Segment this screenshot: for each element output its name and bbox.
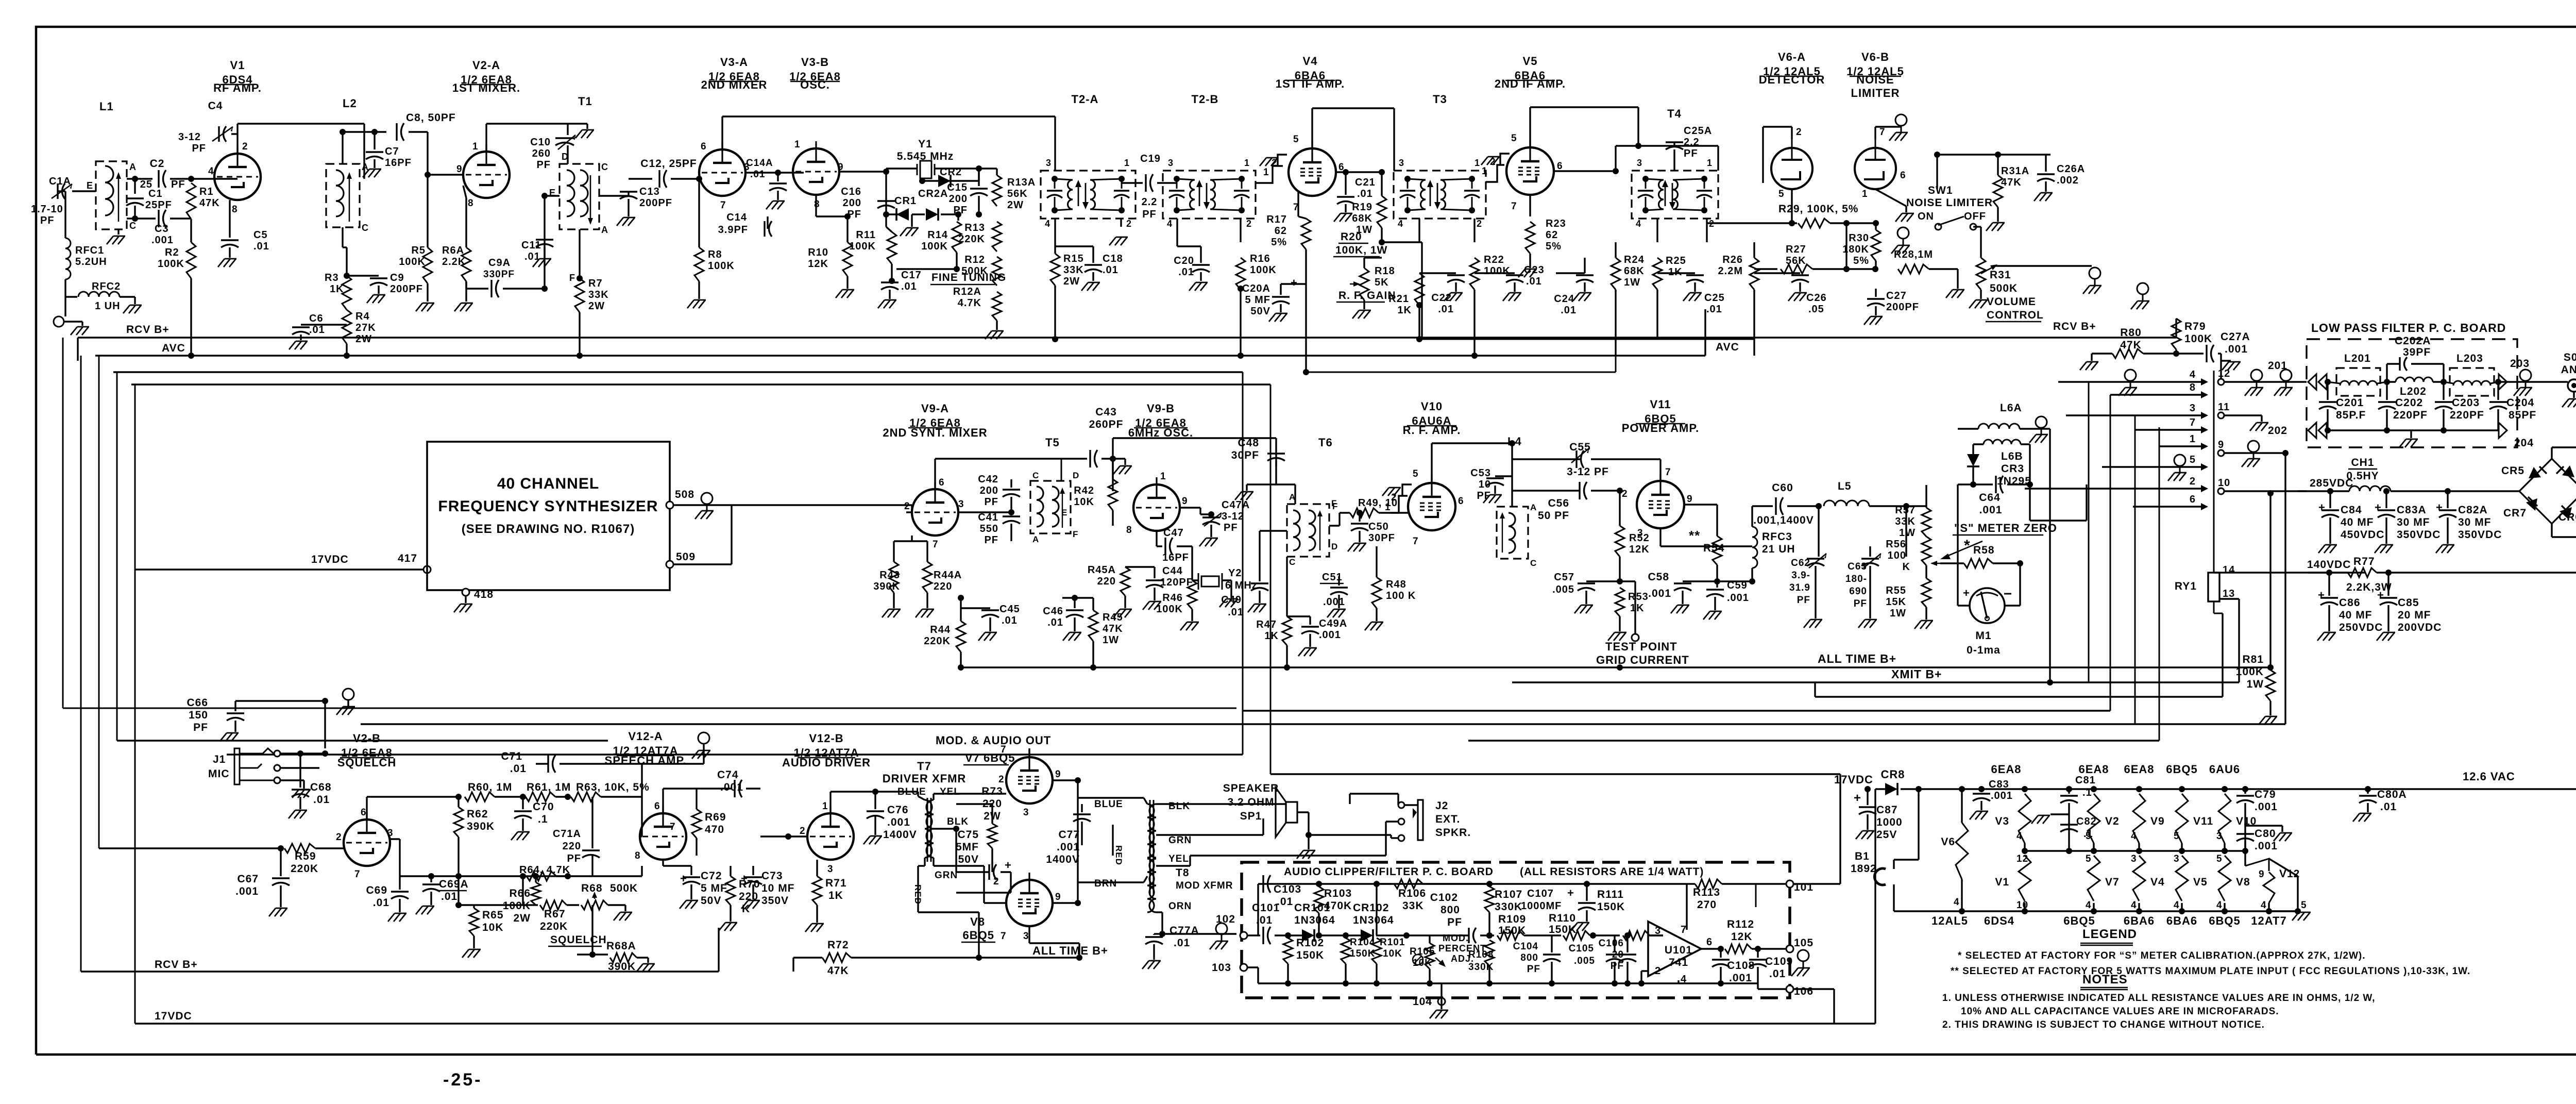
capacitor C26 [1754,272,1800,274]
svg-text:1: 1 [2190,433,2196,445]
svg-text:6EA8: 6EA8 [2124,763,2154,776]
svg-text:C1: C1 [148,188,163,199]
svg-text:180-: 180- [1845,574,1867,584]
wire V7 V8 plates [1053,779,1078,781]
svg-text:330PF: 330PF [483,269,515,280]
svg-text:LEGEND: LEGEND [2082,927,2137,941]
tube V9-B [1133,484,1180,531]
resistor R53 [1615,588,1624,616]
svg-text:R47: R47 [1256,619,1277,630]
wire pin 12 to LPF [2224,381,2307,382]
svg-text:0.5HY: 0.5HY [2346,470,2379,482]
svg-text:2: 2 [904,501,910,512]
svg-text:.1: .1 [2082,787,2092,798]
svg-text:MOD. & AUDIO OUT: MOD. & AUDIO OUT [936,734,1051,747]
svg-text:C82A: C82A [2458,504,2488,516]
svg-text:62: 62 [1275,225,1287,237]
svg-text:T7: T7 [917,760,931,773]
svg-text:220K: 220K [291,863,318,875]
svg-text:R42: R42 [1074,485,1094,496]
svg-text:C57: C57 [1554,572,1574,583]
svg-text:.001: .001 [2255,801,2278,813]
svg-text:PF: PF [984,496,998,508]
svg-text:+: + [1963,587,1970,599]
svg-text:R59: R59 [295,850,316,862]
capacitor C47 [1156,531,1157,546]
svg-text:SPKR.: SPKR. [1435,827,1471,839]
relay RY1 [2208,573,2219,601]
svg-text:T1: T1 [578,95,592,108]
svg-text:1: 1 [1124,158,1130,168]
terminal 508 [666,501,673,509]
resistor R25 [1656,219,1658,242]
tube V10 [1408,483,1455,530]
svg-text:C1A: C1A [49,176,71,187]
capacitor C85 [2387,573,2389,596]
svg-text:C4: C4 [208,100,223,112]
resistor R55 [1922,578,1931,607]
svg-text:L2: L2 [343,97,357,110]
variable capacitor C47A [1180,507,1200,508]
svg-text:MOD XFMR: MOD XFMR [1176,880,1233,891]
svg-text:5: 5 [2086,854,2092,864]
wire squelch plate [366,797,367,819]
svg-text:DETECTOR: DETECTOR [1759,73,1825,86]
svg-text:V7 6BQ5: V7 6BQ5 [965,751,1015,764]
svg-text:R107: R107 [1495,889,1522,900]
svg-text:550: 550 [980,523,998,534]
svg-text:C62: C62 [1791,558,1810,568]
svg-text:R1: R1 [199,186,214,197]
svg-text:.01: .01 [441,891,457,902]
svg-text:3: 3 [1168,158,1174,168]
svg-text:3: 3 [1399,158,1404,168]
svg-text:C9: C9 [390,272,404,283]
svg-text:R30: R30 [1849,232,1869,244]
resistor R7 [579,229,580,278]
capacitor C50 [1357,510,1363,516]
diode CR2 [978,169,979,181]
resistor R70 [726,876,735,905]
svg-text:100K: 100K [708,260,735,272]
svg-text:4: 4 [2131,831,2137,842]
svg-text:.001: .001 [1057,841,1080,853]
svg-text:R64, 4.7K: R64, 4.7K [519,864,570,876]
svg-text:1K: 1K [1630,603,1645,614]
svg-text:+: + [1291,276,1298,289]
svg-text:.001: .001 [1323,596,1345,608]
svg-text:.01: .01 [253,241,269,252]
svg-text:C46: C46 [1043,606,1063,617]
svg-text:1: 1 [1475,158,1480,168]
capacitor C204 [2495,379,2501,385]
svg-text:R29, 100K, 5%: R29, 100K, 5% [1778,203,1858,215]
capacitor C64 [1973,483,1993,485]
svg-text:85P.F: 85P.F [2336,409,2366,421]
svg-text:100K: 100K [921,241,948,252]
wire V1 plate rail [236,124,238,134]
antenna input C1A [57,183,58,199]
svg-text:C83: C83 [1989,779,2009,790]
svg-text:201: 201 [2268,360,2287,372]
svg-text:25V: 25V [1876,829,1897,841]
svg-text:R80: R80 [2120,327,2142,339]
svg-text:C69: C69 [366,884,387,896]
svg-text:140VDC: 140VDC [2307,559,2351,571]
svg-text:R31A: R31A [2001,165,2029,177]
svg-text:200: 200 [980,485,998,496]
long vertical feeders center [1242,372,1244,755]
svg-text:2: 2 [336,832,342,843]
svg-text:YEL: YEL [1168,854,1189,864]
svg-text:3: 3 [827,864,834,875]
svg-text:2W: 2W [355,333,372,345]
svg-text:+: + [2318,589,2325,601]
svg-text:C41: C41 [978,512,998,523]
volume control R31 [1973,226,1981,227]
transformer T4 [1632,171,1718,219]
svg-text:4: 4 [2174,900,2180,911]
svg-text:2: 2 [1655,965,1661,977]
svg-text:4: 4 [2216,900,2223,911]
svg-text:Y1: Y1 [918,138,933,150]
svg-text:2: 2 [1126,219,1132,229]
svg-text:3.9-: 3.9- [1791,570,1810,581]
svg-text:390K: 390K [467,821,495,832]
svg-text:.001: .001 [2255,840,2278,852]
svg-text:150K: 150K [1597,901,1625,913]
capacitor C60 [1751,506,1753,516]
svg-text:R24: R24 [1624,254,1645,265]
svg-text:R112: R112 [1727,918,1754,930]
svg-text:C42: C42 [978,474,998,485]
mid band bus lines [1815,696,2223,697]
svg-text:470: 470 [705,824,724,835]
svg-text:3: 3 [2216,831,2223,842]
svg-text:17VDC: 17VDC [155,1010,192,1022]
svg-text:R110: R110 [1549,912,1576,924]
svg-text:100K: 100K [849,241,876,252]
svg-text:150K: 150K [1350,948,1375,959]
svg-text:C16: C16 [841,186,861,197]
svg-text:C47A: C47A [1222,499,1250,511]
svg-text:500K: 500K [610,882,638,894]
svg-text:1000: 1000 [1876,816,1903,828]
svg-text:9: 9 [1182,496,1188,507]
capacitor C41 [1003,515,1020,517]
capacitor C19 [1121,182,1143,183]
svg-text:106: 106 [1794,985,1814,997]
capacitor C51 [1330,587,1348,588]
svg-text:R65: R65 [482,909,504,921]
svg-text:1: 1 [1385,502,1391,513]
svg-text:V8: V8 [970,915,985,928]
svg-text:4: 4 [2086,900,2092,911]
svg-text:-25-: -25- [443,1070,482,1090]
resistor R4 [342,310,351,344]
svg-text:.01: .01 [510,763,527,775]
svg-text:R17: R17 [1266,214,1287,225]
svg-text:16PF: 16PF [385,157,412,169]
svg-text:3.9PF: 3.9PF [718,224,748,236]
svg-text:12AT7: 12AT7 [2251,914,2286,927]
svg-text:6BQ5: 6BQ5 [2166,763,2197,776]
resistor R57 [1922,508,1931,537]
svg-text:CR1: CR1 [894,195,917,207]
resistor R71 [812,876,822,905]
svg-text:1: 1 [1244,158,1250,168]
svg-text:40 MF: 40 MF [2341,516,2374,528]
svg-text:R53: R53 [1628,591,1649,603]
svg-text:E: E [87,180,93,191]
svg-text:2: 2 [1246,219,1252,229]
svg-text:5: 5 [2190,454,2196,465]
svg-text:1 UH: 1 UH [95,300,121,312]
svg-text:.01: .01 [1047,617,1063,628]
svg-text:U101: U101 [1665,944,1692,956]
svg-text:ON: ON [1918,211,1934,222]
svg-text:100: 100 [1888,550,1906,561]
svg-text:C: C [362,223,369,233]
svg-text:** SELECTED AT FACTORY FOR 5 W: ** SELECTED AT FACTORY FOR 5 WATTS MAXIM… [1951,966,2470,977]
svg-text:.01: .01 [1178,266,1194,278]
svg-text:2W: 2W [514,912,531,924]
svg-text:R. F. GAIN: R. F. GAIN [1338,290,1396,302]
svg-text:3.2 OHM: 3.2 OHM [1227,796,1274,808]
svg-text:150K: 150K [1296,949,1324,961]
svg-text:L4: L4 [1507,435,1522,448]
svg-text:8: 8 [1126,525,1132,536]
tube V2-B [344,819,390,866]
svg-text:C6: C6 [309,313,324,324]
svg-text:CR5: CR5 [2501,465,2524,477]
svg-text:A: A [1530,503,1537,512]
svg-text:V9-B: V9-B [1147,402,1175,415]
svg-text:R55: R55 [1886,585,1906,596]
svg-text:450VDC: 450VDC [2341,529,2384,541]
svg-text:A: A [129,162,137,172]
svg-text:9: 9 [1055,892,1061,902]
svg-text:+: + [1005,859,1012,872]
svg-text:R2: R2 [165,247,179,258]
svg-text:3: 3 [2174,854,2180,864]
svg-text:1400V: 1400V [1046,854,1080,865]
resistor R62 [454,807,463,837]
svg-text:C83A: C83A [2397,504,2427,516]
svg-text:7: 7 [2190,417,2196,428]
svg-text:RED: RED [1114,845,1124,865]
svg-text:C26A: C26A [2057,163,2085,175]
svg-text:S01: S01 [2564,352,2576,363]
svg-text:6BA6: 6BA6 [2124,914,2155,927]
svg-text:NOISE LIMITER: NOISE LIMITER [1906,197,1993,209]
svg-text:220: 220 [739,891,758,902]
svg-text:2W: 2W [1007,199,1024,211]
svg-text:C14A: C14A [746,158,773,169]
svg-text:.01: .01 [1174,937,1190,949]
svg-text:100K: 100K [1250,264,1277,276]
svg-text:R79: R79 [2184,321,2206,332]
svg-text:V10: V10 [1421,400,1443,413]
svg-text:R21: R21 [1388,293,1409,305]
svg-text:A: A [601,225,608,235]
svg-text:RY1: RY1 [2175,580,2197,592]
capacitor C13 [620,191,637,192]
svg-text:C19: C19 [1140,153,1161,164]
svg-text:30PF: 30PF [1368,532,1395,544]
svg-text:2: 2 [800,826,806,837]
svg-text:B1: B1 [1855,850,1870,862]
svg-text:+: + [2375,501,2382,514]
svg-text:1K: 1K [1264,630,1279,642]
capacitor C26 junction wire [1845,223,1847,269]
capacitor C24 [1584,258,1585,273]
svg-text:C80: C80 [2255,828,2276,840]
svg-text:L6A: L6A [2000,402,2022,414]
svg-text:R3: R3 [325,272,339,283]
capacitor C6 [301,324,347,325]
svg-text:R16: R16 [1250,253,1270,264]
svg-text:R101: R101 [1380,937,1405,948]
connector dashed line [2213,371,2215,573]
svg-text:5: 5 [2174,831,2180,842]
svg-text:R104: R104 [1350,937,1375,948]
svg-text:V5: V5 [2193,876,2208,888]
svg-text:C104: C104 [1513,941,1538,952]
svg-text:C53: C53 [1470,467,1491,479]
svg-text:C21: C21 [1355,177,1376,188]
svg-text:OSC.: OSC. [800,78,830,91]
svg-text:6: 6 [654,801,660,812]
svg-text:6: 6 [1706,936,1713,948]
svg-text:RED: RED [913,884,923,905]
svg-text:PF: PF [1684,148,1698,159]
svg-text:V6: V6 [1941,836,1955,848]
V10 plate rail [1431,443,1432,483]
svg-text:47K: 47K [1103,623,1123,634]
svg-text:C27: C27 [1886,290,1907,302]
svg-text:C9A: C9A [488,257,511,269]
svg-text:V6-A: V6-A [1778,51,1806,63]
svg-text:25PF: 25PF [145,199,172,211]
svg-text:T8: T8 [1176,867,1190,879]
svg-text:220K: 220K [958,233,985,245]
svg-text:.001: .001 [1729,972,1752,984]
microphone terminal [64,297,66,316]
svg-text:5: 5 [2301,900,2307,911]
test point grid current [1620,580,1635,582]
svg-text:3: 3 [387,828,394,839]
svg-text:9: 9 [2259,869,2265,880]
svg-text:14: 14 [2223,564,2235,576]
svg-text:(SEE DRAWING NO. R1067): (SEE DRAWING NO. R1067) [462,522,635,536]
svg-text:5%: 5% [1853,255,1869,266]
svg-text:C25: C25 [1704,292,1725,304]
svg-text:YEL: YEL [940,787,960,797]
svg-text:SP1: SP1 [1240,810,1262,822]
svg-text:C77: C77 [1058,829,1080,841]
svg-text:C18: C18 [1103,253,1123,264]
svg-text:5: 5 [2086,831,2092,842]
svg-text:V2-B: V2-B [353,732,381,745]
svg-text:C22: C22 [1431,292,1452,304]
svg-text:R22: R22 [1484,254,1504,265]
svg-text:50V: 50V [1250,306,1270,317]
svg-text:203: 203 [2510,358,2530,370]
svg-text:RCV B+: RCV B+ [155,959,198,971]
capacitor C49 [1260,530,1287,531]
svg-text:7: 7 [1879,127,1886,138]
svg-text:.01: .01 [1103,264,1118,276]
svg-text:.01: .01 [1002,615,1018,626]
svg-text:17VDC: 17VDC [311,554,349,565]
svg-text:220K: 220K [540,921,568,932]
svg-text:R73: R73 [981,785,1003,797]
svg-text:C49A: C49A [1319,618,1347,629]
variable capacitor C4 [236,134,238,154]
svg-text:EXT.: EXT. [1435,813,1460,825]
svg-text:7: 7 [1001,744,1007,755]
svg-text:C84: C84 [2341,504,2362,516]
svg-text:10: 10 [1479,479,1491,490]
svg-text:6BQ5: 6BQ5 [2209,914,2240,927]
svg-text:9: 9 [456,164,463,175]
svg-text:6BQ5: 6BQ5 [963,929,994,942]
svg-text:C: C [1289,557,1296,567]
svg-text:6EA8: 6EA8 [2078,763,2109,776]
svg-text:GRN: GRN [1168,835,1192,846]
svg-text:D: D [1331,542,1338,551]
V6 wires [1791,127,1792,139]
svg-text:PF: PF [984,534,998,546]
svg-text:200: 200 [843,197,861,209]
svg-text:R46: R46 [1162,592,1183,604]
svg-text:17VDC: 17VDC [1834,773,1873,786]
capacitor C27 [1875,289,1876,297]
capacitor C14A [745,172,778,173]
svg-text:6EA8: 6EA8 [1991,763,2021,776]
svg-text:5 MF: 5 MF [701,882,727,894]
svg-text:.001: .001 [151,235,174,246]
ground T2A secondary [1120,219,1122,227]
svg-text:J2: J2 [1435,800,1448,812]
svg-text:C55: C55 [1569,441,1591,453]
svg-text:C2: C2 [150,158,165,170]
svg-text:1000MF: 1000MF [1521,900,1562,912]
tube V7 [1006,757,1053,804]
svg-text:R4: R4 [355,311,370,322]
svg-text:DRIVER XFMR: DRIVER XFMR [883,772,967,785]
svg-text:8: 8 [635,850,641,861]
svg-text:R19: R19 [1352,202,1372,213]
svg-text:CR8: CR8 [1880,768,1905,781]
svg-text:33K: 33K [1895,516,1916,527]
svg-text:R12A: R12A [953,286,981,297]
RCV B+ feed jacks right [2089,267,2100,279]
svg-text:100 K: 100 K [1386,590,1416,601]
svg-text:1: 1 [794,139,801,150]
svg-text:7: 7 [354,869,361,880]
svg-text:C43: C43 [1095,406,1117,418]
svg-text:C72: C72 [701,870,722,882]
svg-text:C76: C76 [887,804,909,816]
svg-text:V3-B: V3-B [801,56,829,69]
svg-text:350VDC: 350VDC [2458,529,2502,541]
svg-text:1ST IF AMP.: 1ST IF AMP. [1276,77,1345,90]
svg-text:4: 4 [2190,369,2196,380]
resistor R26 [1706,219,1707,242]
svg-text:12K: 12K [1731,931,1753,943]
